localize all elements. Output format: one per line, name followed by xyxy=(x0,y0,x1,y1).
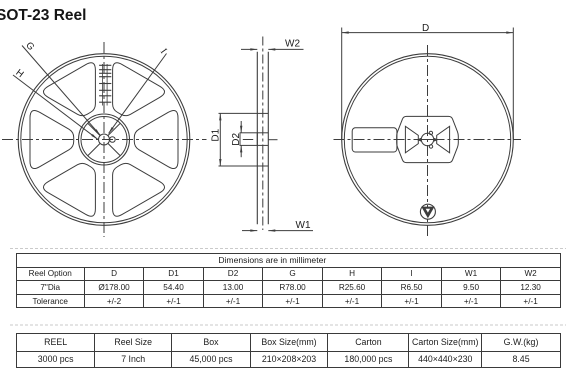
reel front view: hub circles xyxy=(79,114,130,165)
back view: center hole xyxy=(421,133,433,145)
svg-text:D2: D2 xyxy=(231,132,242,145)
side view: center line xyxy=(262,37,264,231)
reel front view: horizontal center line xyxy=(2,139,207,141)
back view: hub lugs xyxy=(429,131,432,134)
svg-text:W1: W1 xyxy=(296,220,311,231)
dimension D extension lines xyxy=(341,28,343,140)
side view: left flange line xyxy=(256,52,258,224)
reel front view: tape slot ladder rails xyxy=(102,64,104,106)
back view: wing tip arrows xyxy=(417,138,422,142)
packing table xyxy=(16,333,561,368)
reel front view: vertical center line xyxy=(103,42,105,237)
back view: tape slot xyxy=(352,128,397,152)
dimension D line xyxy=(342,32,514,34)
reel front view: key hole xyxy=(110,137,116,143)
leader line G xyxy=(22,46,100,136)
reel front view: tape slot ladder bars xyxy=(99,64,111,66)
svg-text:D1: D1 xyxy=(210,128,221,141)
faint rule above upper table xyxy=(10,248,566,250)
leader line I xyxy=(109,54,167,134)
leader line H xyxy=(13,75,98,139)
faint rule above lower table xyxy=(10,324,566,326)
dimension W1 xyxy=(242,230,257,232)
dimension D2 arrows xyxy=(240,121,242,133)
svg-text:W2: W2 xyxy=(285,39,300,50)
dimension D1 line with arrows xyxy=(219,113,221,166)
back view: left hub wing xyxy=(405,126,418,153)
back view: recycle mark circle xyxy=(420,204,435,219)
dimensions table xyxy=(16,253,561,308)
title xyxy=(0,7,86,25)
reel front view: six window cutouts xyxy=(134,110,178,168)
side view: right flange line xyxy=(267,52,269,224)
reel front view: hub radial ribs xyxy=(108,143,120,155)
back view: hub outline xyxy=(397,116,459,162)
svg-text:D: D xyxy=(422,23,429,34)
back view: recycle mark triangle xyxy=(421,207,434,219)
back view: horizontal center line xyxy=(334,139,522,141)
side view: hub section lines xyxy=(257,112,268,114)
back view: vertical center line xyxy=(427,45,429,236)
side view: center line right stub xyxy=(268,139,277,141)
dimension D1 extension lines xyxy=(219,112,258,114)
back view: right hub wing xyxy=(437,126,450,153)
side view: hub bore tube xyxy=(240,133,257,146)
back view: outer flange circle (double line) xyxy=(342,54,514,226)
back view: center line solid segment through hub xyxy=(416,139,438,141)
reel front view: center hole xyxy=(99,134,110,145)
dimension W2 xyxy=(241,48,257,50)
reel front view: outer flange circle (double line) xyxy=(18,54,190,226)
